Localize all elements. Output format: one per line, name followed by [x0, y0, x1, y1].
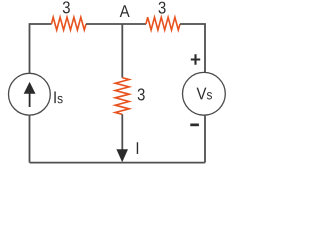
- resistor R3 (3 ohm, middle vertical): [115, 78, 129, 115]
- current arrow head I (points down onto bottom rail): [116, 149, 128, 162]
- wire: right rail lower segment (Vs to bottom-right corner): [204, 115, 206, 163]
- wire: middle branch upper (node A down to R3): [121, 24, 123, 78]
- current source U1 circle (Is): [9, 73, 51, 115]
- current source arrow (points up): [29, 93, 31, 107]
- label I (branch current): [137, 142, 138, 154]
- wire: bottom rail: [30, 162, 205, 164]
- resistor R1 (3 ohm, top left): [52, 17, 87, 30]
- plus sign (+ terminal of Vs): [191, 54, 200, 65]
- minus sign (- terminal of Vs): [190, 124, 199, 127]
- value label 3 for R1: [63, 1, 70, 13]
- wire: top-middle segment (R1 to R2 through node A): [86, 23, 146, 25]
- resistor R2 (3 ohm, top right): [146, 17, 180, 30]
- label Vs: [197, 88, 212, 100]
- voltage source U2 circle (Vs): [183, 72, 226, 115]
- wire: top-left corner segment (left rail up to R1): [30, 24, 52, 74]
- wire: top-right corner segment (R2 to Vs): [180, 24, 205, 73]
- wire: left rail lower segment (Is to bottom-left corner): [29, 115, 31, 163]
- value label 3 for R3: [138, 88, 145, 100]
- value label 3 for R2: [159, 2, 166, 14]
- node A label: [120, 5, 130, 17]
- label Is: [54, 91, 62, 103]
- wire: middle branch lower (R3 down to bottom rail): [121, 114, 123, 153]
